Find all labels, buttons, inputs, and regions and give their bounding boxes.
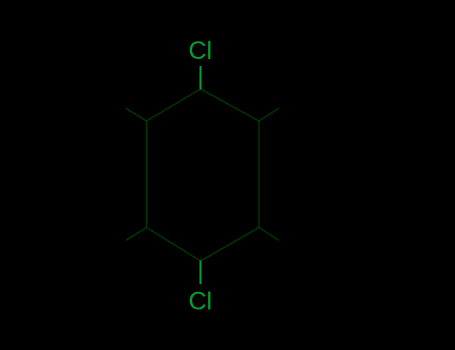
bond LL-B bbox=[147, 228, 201, 262]
svg-text:Cl: Cl bbox=[189, 287, 213, 315]
svg-text:Cl: Cl bbox=[189, 37, 213, 65]
bond T-UL bbox=[147, 89, 201, 121]
bond C4-Cl (bottom) bbox=[199, 261, 201, 285]
bond B-LR bbox=[201, 228, 260, 262]
methyl stub UL bbox=[126, 108, 147, 121]
methyl stub LR bbox=[259, 228, 279, 241]
bond UL-LL bbox=[146, 121, 148, 228]
bond UR-T bbox=[201, 89, 260, 121]
methyl stub UR bbox=[259, 108, 279, 121]
bond C1-Cl (top) bbox=[199, 66, 201, 90]
bond LR-UR bbox=[258, 121, 260, 228]
methyl stub LL bbox=[126, 228, 147, 241]
